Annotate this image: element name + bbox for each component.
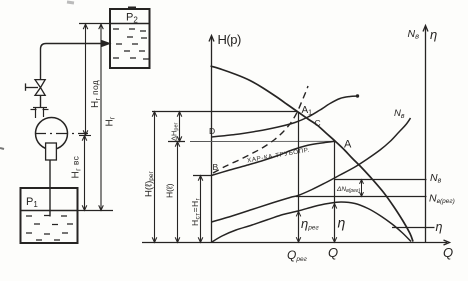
tank P2 (110, 9, 150, 68)
flange joint (31, 108, 49, 119)
curve pipeline char through B,A (211, 141, 335, 175)
svg-text:η: η (338, 215, 346, 231)
svg-text:В: В (213, 162, 219, 172)
wire discharge pipe (41, 44, 105, 81)
level line upper tank extension (79, 23, 110, 25)
axis Q (horizontal) (142, 240, 450, 245)
level line Nv(reg) (296, 196, 427, 198)
wire suction pipe (49, 160, 51, 217)
level line Nv (334, 179, 427, 181)
level line eta right (392, 227, 435, 229)
curve Nv power (211, 118, 410, 222)
svg-text:H(p): H(p) (218, 32, 241, 47)
tick Hst (y=175.5) (193, 175, 212, 177)
line Qreg vertical (298, 112, 300, 243)
dimension Hg (99, 24, 104, 211)
svg-text:Hст=Hг: Hст=Hг (190, 198, 202, 226)
svg-text:η: η (436, 220, 443, 234)
svg-text:Q: Q (443, 245, 453, 260)
level line lower tank extension (78, 210, 114, 212)
dimension H(l)reg (152, 112, 157, 243)
svg-text:A: A (344, 139, 352, 151)
line Q vertical (334, 141, 336, 242)
valve (26, 80, 46, 96)
curve pipeline char through D,C (211, 96, 357, 137)
scan mark top (128, 7, 136, 10)
scan mark left (0, 148, 4, 149)
wire valve to pump (40, 95, 42, 107)
axis N,eta (right vertical) (423, 26, 428, 243)
dimension H(l) (175, 142, 180, 243)
dimension Hst=Hg (198, 176, 203, 243)
arrows eta_reg on Qreg line (296, 211, 301, 242)
curve eta efficiency (212, 202, 412, 242)
scan smudge (67, 2, 74, 3)
svg-text:D: D (209, 126, 215, 136)
svg-text:Q: Q (328, 245, 338, 260)
pump suction nozzle (46, 143, 57, 160)
svg-text:C: C (315, 118, 321, 128)
axis H (left vertical) (209, 36, 214, 244)
level line through D to A (y=141.5) (168, 141, 185, 143)
svg-text:η: η (430, 27, 437, 42)
pump (36, 118, 68, 150)
level line H(l)reg (y=111.5) (152, 111, 298, 113)
curve throttled pipeline char (dashed) (213, 86, 308, 173)
pump centerline (36, 133, 88, 135)
arrows eta on Q line (332, 204, 337, 243)
dimension Hg pod (79, 24, 91, 136)
svg-text:ΔNв(рег): ΔNв(рег) (336, 186, 360, 194)
dimension dNv(reg) (360, 180, 364, 197)
dimension Hg vs (82, 136, 87, 211)
svg-text:H(ℓ): H(ℓ) (165, 183, 175, 198)
tank P1 (21, 188, 78, 243)
dimension dHreg (177, 112, 182, 142)
curve H(Q) main pump head (211, 66, 414, 242)
